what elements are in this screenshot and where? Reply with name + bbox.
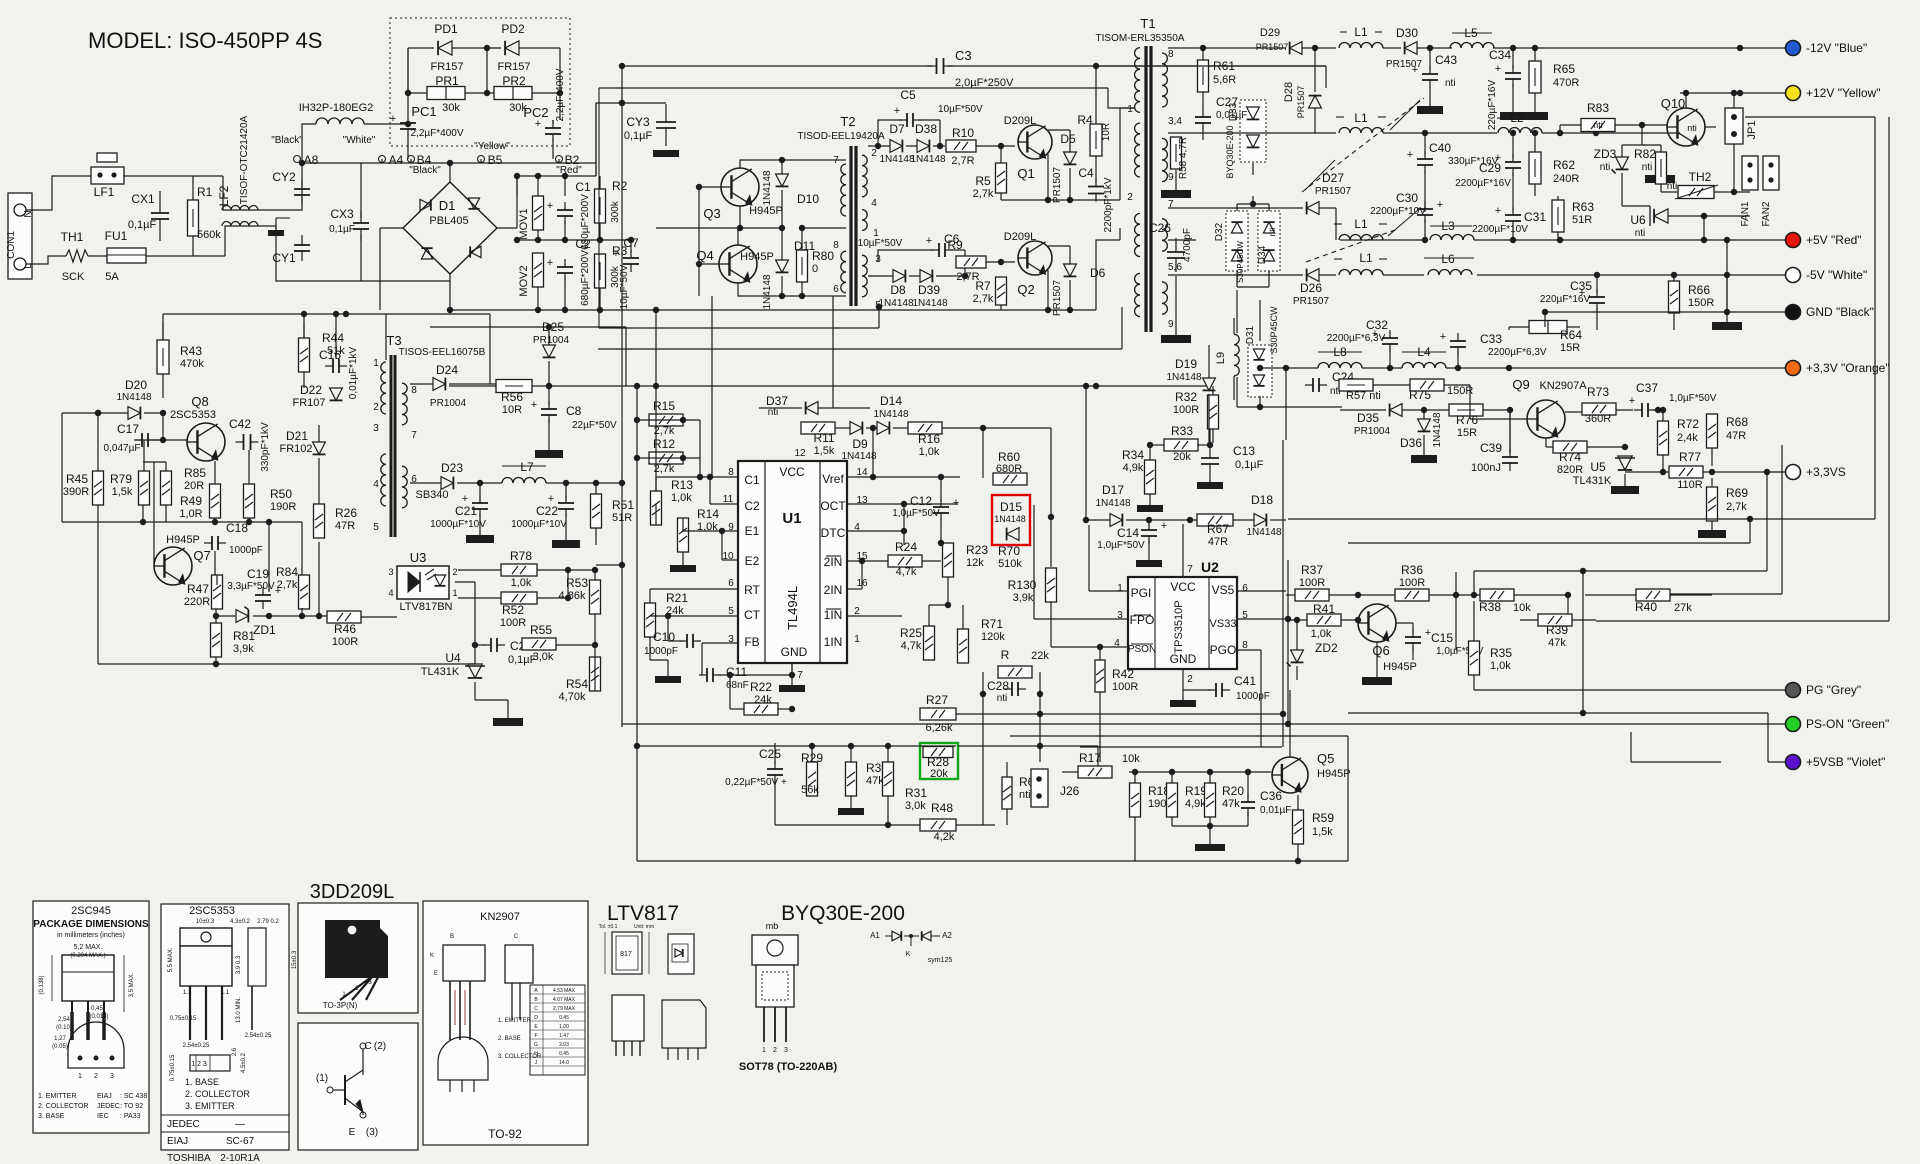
svg-text:4,7k: 4,7k	[901, 640, 922, 652]
wire	[143, 461, 166, 463]
svg-text:C21: C21	[455, 504, 477, 518]
wire	[1286, 367, 1318, 369]
resistor R9	[956, 256, 986, 268]
svg-text:EIAJ: EIAJ	[97, 1093, 112, 1100]
svg-text:(0.05): (0.05)	[52, 1044, 68, 1050]
svg-text:+: +	[926, 235, 932, 247]
node A4	[379, 156, 386, 163]
wire	[656, 309, 945, 311]
resistor R66	[1669, 281, 1680, 313]
svg-text:R82: R82	[1634, 147, 1656, 161]
svg-text:1. BASE: 1. BASE	[185, 1077, 219, 1087]
wire	[302, 162, 596, 164]
svg-text:1,0k: 1,0k	[919, 446, 940, 458]
wire	[1567, 595, 1569, 614]
svg-text:0.75±0.15: 0.75±0.15	[170, 1054, 176, 1081]
svg-text:10R: 10R	[502, 404, 522, 416]
capacitor C33	[1450, 340, 1466, 342]
ground	[1170, 700, 1196, 707]
svg-text:D7: D7	[889, 122, 905, 136]
resistor R5	[996, 163, 1007, 193]
svg-text:D: D	[534, 1015, 538, 1021]
svg-text:"Black": "Black"	[409, 165, 441, 176]
svg-text:D34: D34	[1257, 245, 1268, 264]
resistor R10	[946, 140, 976, 152]
svg-text:C8: C8	[566, 404, 582, 418]
svg-text:1N4148: 1N4148	[873, 409, 908, 420]
svg-text:2,7k: 2,7k	[973, 188, 994, 200]
wire	[622, 65, 932, 67]
svg-text:C32: C32	[1366, 318, 1388, 332]
transistor Q3	[721, 168, 759, 206]
svg-text:C: C	[534, 1006, 538, 1012]
svg-text:R68: R68	[1726, 415, 1748, 429]
diode D38	[917, 140, 929, 153]
varistor MOV2	[533, 253, 544, 287]
capacitor CX3	[353, 222, 369, 224]
svg-text:R65: R65	[1553, 62, 1575, 76]
svg-text:D8: D8	[890, 283, 906, 297]
svg-text:2SC5353: 2SC5353	[170, 409, 216, 421]
wire	[847, 560, 888, 562]
svg-text:: TO 92: : TO 92	[120, 1103, 143, 1110]
wire	[302, 124, 316, 163]
TO-3P drawing	[325, 920, 388, 978]
capacitor CX1	[151, 212, 169, 214]
node A8	[294, 156, 301, 163]
diode D39	[920, 270, 932, 283]
wire	[537, 287, 539, 310]
svg-text:TO-92: TO-92	[488, 1127, 522, 1141]
resistor R37	[1295, 589, 1329, 601]
resistor R22	[744, 703, 778, 715]
svg-text:+3,3V "Orange": +3,3V "Orange"	[1806, 361, 1890, 375]
wire	[1455, 572, 1457, 650]
svg-text:6,26k: 6,26k	[926, 722, 953, 734]
svg-text:2SC945: 2SC945	[71, 905, 111, 917]
wire	[1373, 384, 1410, 386]
svg-text:D38: D38	[915, 122, 937, 136]
svg-text:10µF*50V: 10µF*50V	[619, 264, 630, 309]
svg-text:R22: R22	[750, 680, 772, 694]
svg-text:IEC: IEC	[97, 1113, 109, 1120]
wire	[655, 504, 657, 525]
diode D25	[543, 345, 556, 357]
svg-text:+: +	[547, 200, 553, 212]
svg-text:+5VSB "Violet": +5VSB "Violet"	[1806, 755, 1885, 769]
svg-text:R9: R9	[947, 238, 963, 252]
svg-text:R28: R28	[927, 755, 949, 769]
svg-text:1.00: 1.00	[559, 1024, 569, 1030]
wire	[97, 505, 99, 664]
svg-text:D28: D28	[1283, 82, 1295, 102]
wire	[410, 482, 441, 484]
svg-text:1N4148: 1N4148	[994, 514, 1026, 524]
svg-text:A1: A1	[870, 931, 880, 940]
svg-text:8: 8	[1242, 640, 1248, 651]
svg-text:1IN: 1IN	[824, 635, 843, 649]
capacitor C43	[1422, 73, 1438, 75]
resistor R6	[1002, 777, 1012, 809]
svg-text:100R: 100R	[1112, 681, 1138, 693]
capacitor C28	[1011, 682, 1013, 696]
capacitor C2	[557, 266, 573, 268]
svg-text:3,9k: 3,9k	[233, 643, 254, 655]
resistor R45	[93, 471, 104, 505]
dashed coupling	[1302, 98, 1424, 192]
jumper JP1	[1725, 108, 1743, 144]
svg-text:ZD1: ZD1	[253, 623, 276, 637]
wire	[410, 383, 433, 385]
svg-text:8: 8	[728, 467, 734, 478]
svg-text:(2): (2)	[374, 1041, 386, 1052]
svg-text:sym125: sym125	[928, 957, 953, 964]
svg-text:1,27: 1,27	[54, 1036, 66, 1042]
svg-text:R78: R78	[510, 549, 532, 563]
transistor Q2	[1018, 241, 1052, 275]
wire	[455, 581, 475, 583]
wire	[1348, 542, 1750, 544]
resistor R75	[1410, 379, 1444, 391]
wire	[1661, 191, 1678, 193]
svg-text:Q1: Q1	[1017, 166, 1034, 181]
svg-text:C41: C41	[1234, 674, 1256, 688]
svg-text:220µF*16V: 220µF*16V	[1540, 294, 1591, 305]
resistor R19	[1167, 783, 1178, 817]
svg-text:C26: C26	[1149, 221, 1171, 235]
package box 2SC945	[33, 901, 149, 1133]
svg-text:47R: 47R	[335, 520, 355, 532]
svg-text:LF2: LF2	[217, 185, 231, 206]
wire Q3/Q4 base	[699, 186, 721, 188]
wire	[1297, 795, 1299, 810]
wire	[1096, 240, 1120, 310]
frame	[637, 860, 1348, 862]
svg-text:Q2: Q2	[1017, 282, 1034, 297]
resistor R60	[993, 473, 1027, 485]
svg-text:C33: C33	[1480, 332, 1502, 346]
svg-text:nti: nti	[1019, 789, 1031, 801]
resistor R17	[1078, 766, 1112, 778]
svg-text:C12: C12	[910, 494, 932, 508]
svg-text:7: 7	[411, 430, 417, 441]
svg-text:CX1: CX1	[131, 192, 155, 206]
svg-text:C2: C2	[575, 237, 591, 251]
svg-text:C3: C3	[955, 48, 972, 63]
svg-text:R43: R43	[180, 344, 202, 358]
svg-text:PR1: PR1	[435, 74, 459, 88]
svg-text:E: E	[434, 971, 438, 977]
svg-text:nti: nti	[1593, 120, 1603, 130]
svg-text:C15: C15	[1431, 631, 1453, 645]
svg-text:PSON: PSON	[1128, 644, 1156, 655]
svg-text:SCK: SCK	[62, 271, 85, 283]
svg-text:3: 3	[373, 423, 379, 434]
svg-text:2.54±0.25: 2.54±0.25	[183, 1043, 210, 1049]
2SC945 bottom view	[68, 1022, 124, 1068]
ground	[1522, 112, 1548, 120]
svg-text:JP1: JP1	[1746, 121, 1758, 140]
wire	[537, 230, 539, 240]
svg-text:1,0R: 1,0R	[179, 508, 202, 520]
svg-text:U4: U4	[445, 651, 461, 665]
ground	[552, 540, 580, 548]
svg-text:R23: R23	[966, 543, 988, 557]
svg-text:R44: R44	[322, 331, 344, 345]
svg-text:+: +	[390, 113, 396, 125]
capacitor C29	[1505, 161, 1521, 163]
2SC5353 drawing	[180, 928, 232, 946]
connector CON1	[8, 193, 32, 279]
wire	[1236, 204, 1238, 211]
wire	[1402, 409, 1449, 411]
svg-text:+: +	[1495, 63, 1501, 75]
svg-text:CY2: CY2	[272, 170, 296, 184]
svg-text:2IN: 2IN	[824, 583, 843, 597]
svg-text:C28: C28	[987, 679, 1009, 693]
svg-text:R24: R24	[895, 540, 917, 554]
svg-text:R1: R1	[197, 185, 213, 199]
resistor R59	[1293, 810, 1304, 844]
svg-text:+3,3VS: +3,3VS	[1806, 465, 1846, 479]
svg-text:R85: R85	[184, 466, 206, 480]
svg-text:2,4k: 2,4k	[1677, 432, 1698, 444]
svg-text:D17: D17	[1102, 483, 1124, 497]
resistor R11	[801, 422, 835, 434]
wire	[1622, 205, 1650, 207]
wire	[1286, 619, 1307, 621]
svg-text:13.0 MIN.: 13.0 MIN.	[236, 997, 242, 1023]
svg-text:D30: D30	[1396, 26, 1418, 40]
svg-text:0,01µF: 0,01µF	[1216, 110, 1247, 121]
package box KN2907	[423, 901, 588, 1145]
svg-text:47R: 47R	[1208, 536, 1228, 548]
svg-text:CY3: CY3	[626, 115, 650, 129]
wire Q9 base	[1469, 385, 1471, 419]
wire	[1474, 689, 1786, 691]
svg-text:0,1µF: 0,1µF	[329, 224, 355, 235]
wire	[1134, 817, 1136, 861]
wire	[1048, 245, 1070, 247]
svg-text:1.1: 1.1	[221, 990, 230, 996]
svg-text:6: 6	[1242, 583, 1248, 594]
svg-text:CON1: CON1	[6, 231, 17, 259]
svg-text:PR1004: PR1004	[1354, 426, 1391, 437]
ground	[1411, 455, 1437, 463]
svg-text:"White": "White"	[343, 135, 376, 146]
resistor R69	[1707, 487, 1718, 521]
svg-text:150R: 150R	[1688, 297, 1714, 309]
svg-text:TOSHIBA: TOSHIBA	[167, 1153, 211, 1164]
svg-text:L6: L6	[1441, 252, 1455, 266]
svg-text:C16: C16	[319, 348, 341, 362]
svg-text:FAN2: FAN2	[1761, 201, 1772, 226]
svg-text:3: 3	[784, 1047, 788, 1054]
thermistor TH2	[1678, 186, 1714, 199]
resistor R43	[157, 340, 169, 374]
wire	[430, 326, 626, 328]
svg-text:LTV817BN: LTV817BN	[400, 601, 453, 613]
diode D26	[1307, 269, 1319, 282]
svg-text:3DD209L: 3DD209L	[310, 881, 395, 903]
resistor R16	[908, 422, 942, 434]
svg-text:3,5 MAX.: 3,5 MAX.	[129, 972, 135, 997]
svg-text:Q9: Q9	[1512, 377, 1529, 392]
svg-text:D14: D14	[880, 394, 902, 408]
wire	[637, 419, 683, 421]
wire	[1095, 66, 1097, 124]
wire	[408, 47, 434, 49]
diode D23	[441, 477, 453, 490]
svg-text:GND "Black": GND "Black"	[1806, 305, 1874, 319]
svg-text:FR157: FR157	[497, 61, 530, 73]
svg-text:nti: nti	[1687, 123, 1697, 133]
capacitor C31	[1505, 214, 1521, 216]
wire	[599, 327, 879, 329]
capacitor C18	[211, 536, 213, 550]
svg-text:—: —	[235, 1119, 245, 1130]
svg-text:R45: R45	[66, 472, 88, 486]
svg-text:D24: D24	[436, 363, 458, 377]
wire	[1493, 47, 1786, 49]
svg-text:VCC: VCC	[1170, 580, 1196, 594]
svg-text:3. EMITTER: 3. EMITTER	[185, 1101, 235, 1111]
svg-text:Unit: mm: Unit: mm	[634, 924, 654, 930]
capacitor C25	[767, 768, 783, 770]
svg-text:1N4148: 1N4148	[1432, 412, 1443, 447]
wire	[1237, 590, 1286, 592]
svg-text:PR1507: PR1507	[1052, 166, 1063, 203]
svg-text:PR1507: PR1507	[1296, 86, 1306, 119]
svg-text:LF1: LF1	[94, 185, 115, 199]
resistor R76	[1449, 404, 1483, 416]
svg-text:4: 4	[871, 198, 877, 209]
svg-text:R36: R36	[1401, 563, 1423, 577]
svg-text:R16: R16	[918, 432, 940, 446]
svg-text:C5: C5	[900, 88, 916, 102]
svg-text:2. COLLECTOR: 2. COLLECTOR	[38, 1103, 88, 1110]
svg-text:R56: R56	[501, 390, 523, 404]
svg-text:10µF*50V: 10µF*50V	[858, 238, 903, 249]
svg-text:1,5k: 1,5k	[1312, 826, 1333, 838]
capacitor CY1	[294, 244, 310, 246]
diode D7	[890, 140, 902, 153]
wire	[976, 145, 1015, 147]
svg-text:2.03: 2.03	[559, 1042, 569, 1048]
svg-text:2,7k: 2,7k	[1726, 501, 1747, 513]
svg-text:Vref: Vref	[822, 472, 844, 486]
svg-text:D36: D36	[1400, 436, 1422, 450]
wire	[1335, 208, 1337, 240]
resistor R68	[1707, 414, 1718, 448]
svg-text:KN2907A: KN2907A	[1539, 380, 1587, 392]
svg-text:1N4148: 1N4148	[841, 451, 876, 462]
ground	[670, 565, 696, 572]
wire	[1001, 199, 1096, 201]
svg-text:D32: D32	[1214, 222, 1225, 241]
svg-text:VS33: VS33	[1210, 618, 1237, 630]
svg-text:680µF*200V: 680µF*200V	[580, 250, 591, 306]
wire	[986, 261, 1015, 263]
svg-text:Q3: Q3	[703, 206, 720, 221]
svg-text:300k: 300k	[610, 200, 621, 223]
svg-text:FU1: FU1	[105, 229, 128, 243]
resistor R25	[924, 626, 935, 660]
LTV817 pkg1	[612, 932, 642, 974]
svg-text:L1: L1	[1354, 25, 1368, 39]
svg-text:PC2: PC2	[523, 105, 548, 120]
svg-text:470R: 470R	[1553, 77, 1579, 89]
svg-text:3. BASE: 3. BASE	[38, 1113, 65, 1120]
wire FPO	[1033, 505, 1035, 619]
connector FAN2	[1763, 156, 1779, 190]
resistor R20	[1205, 783, 1216, 817]
svg-text:D19: D19	[1175, 357, 1197, 371]
wire	[1680, 92, 1786, 94]
capacitor CY2	[294, 188, 310, 190]
ground	[1136, 560, 1162, 567]
svg-text:100R: 100R	[500, 617, 526, 629]
svg-text:R25: R25	[900, 626, 922, 640]
svg-text:Q10: Q10	[1661, 96, 1686, 111]
svg-text:2: 2	[373, 402, 379, 413]
ground	[1645, 175, 1675, 183]
capacitor C24	[1312, 378, 1314, 392]
node B5	[478, 156, 485, 163]
svg-text:0,1µF: 0,1µF	[128, 219, 157, 231]
svg-text:T3: T3	[386, 333, 401, 348]
svg-text:10k: 10k	[1513, 602, 1531, 614]
svg-text:+: +	[1407, 149, 1413, 161]
svg-text:C18: C18	[226, 521, 248, 535]
svg-text:FR102: FR102	[279, 443, 312, 455]
svg-text:4,7k: 4,7k	[896, 566, 917, 578]
capacitor C27	[1195, 116, 1211, 118]
svg-text:360R: 360R	[1585, 413, 1611, 425]
svg-text:Q7: Q7	[193, 548, 210, 563]
svg-text:4,86k: 4,86k	[559, 590, 586, 602]
resistor R38	[1480, 589, 1514, 601]
wire	[1559, 125, 1561, 133]
fuse FU1	[107, 248, 146, 263]
svg-text:1. EMITTER: 1. EMITTER	[498, 1018, 532, 1024]
wire	[1150, 444, 1164, 446]
svg-text:220R: 220R	[184, 596, 210, 608]
dashed	[1388, 210, 1418, 236]
svg-text:3,0k: 3,0k	[905, 800, 926, 812]
svg-text:22k: 22k	[1031, 650, 1049, 662]
svg-text:20k: 20k	[930, 768, 948, 780]
svg-text:R79: R79	[110, 472, 132, 486]
svg-text:6: 6	[833, 284, 839, 295]
diode D8	[893, 270, 905, 283]
svg-text:1N4148: 1N4148	[910, 154, 945, 165]
transistor Q5	[1272, 757, 1308, 793]
wire	[1120, 108, 1134, 200]
resistor R30	[846, 762, 857, 796]
svg-text:TL494L: TL494L	[785, 586, 800, 630]
capacitor PC2	[545, 127, 561, 129]
capacitor C11	[706, 668, 708, 682]
svg-text:5,2 MAX.: 5,2 MAX.	[74, 944, 103, 951]
wire	[1424, 170, 1426, 212]
terminal +12V	[1786, 86, 1801, 101]
svg-text:PR1004: PR1004	[533, 335, 570, 346]
svg-text:D22: D22	[300, 383, 322, 397]
svg-text:B: B	[450, 934, 454, 940]
resistor R51	[591, 494, 602, 528]
svg-text:H945P: H945P	[1317, 768, 1351, 780]
